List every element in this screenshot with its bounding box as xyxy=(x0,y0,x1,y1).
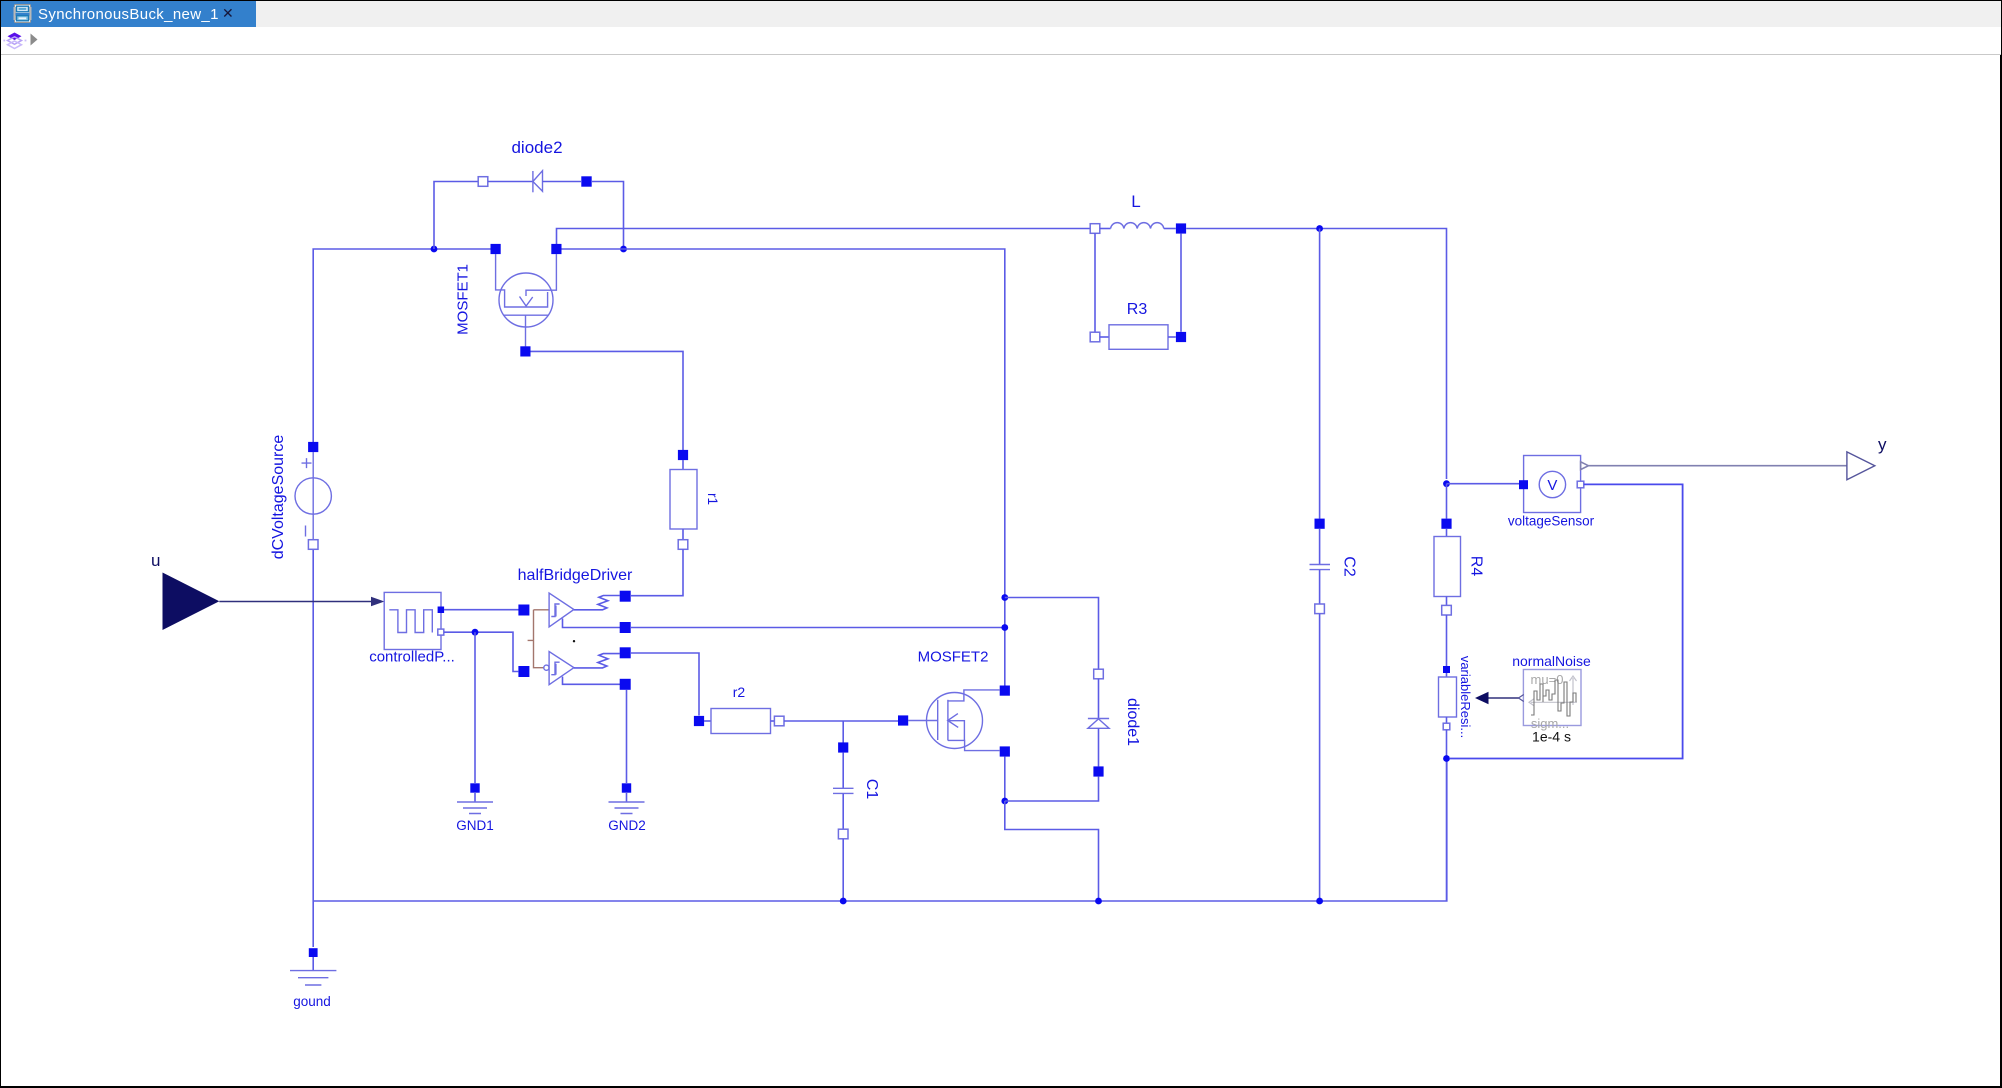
wire halfBridgeDriver out3 to r2 xyxy=(631,653,699,716)
svg-text:GND1: GND1 xyxy=(456,818,494,833)
run arrow icon xyxy=(29,33,41,47)
wire MOSFET1 source to r1 xyxy=(531,351,684,450)
svg-text:MOSFET2: MOSFET2 xyxy=(918,649,989,666)
output y xyxy=(1847,435,1887,480)
MOSFET2 xyxy=(898,649,1010,757)
wire r1 to halfBridgeDriver fire output xyxy=(631,549,683,595)
wire C2 to bus xyxy=(1319,614,1321,901)
svg-text:GND2: GND2 xyxy=(608,818,646,833)
MOSFET1 xyxy=(455,244,562,357)
node junction at (1004.8,801) xyxy=(1001,798,1008,805)
wire controlledPWM notFire to halfBridgeDriver xyxy=(444,632,518,671)
wire halfBridgeDriver out4 down to GND2 xyxy=(626,690,628,783)
wire node to diode1 top xyxy=(1005,598,1099,670)
svg-text:diode2: diode2 xyxy=(511,138,562,157)
wire junction down to GND1 xyxy=(474,632,476,783)
svg-text:V: V xyxy=(1547,477,1557,494)
svg-text:voltageSensor: voltageSensor xyxy=(1508,514,1595,529)
wire diode1 bottom to node xyxy=(1005,777,1099,801)
wire branch down to C1 xyxy=(842,721,844,743)
wire node to voltageSensor xyxy=(1447,483,1520,485)
svg-text:1e-4 s: 1e-4 s xyxy=(1532,729,1571,745)
wire MOSFET1 drain node to L bus (upper) xyxy=(557,229,1091,245)
capacitor C1 xyxy=(833,742,880,838)
node junction at (1098.5,901) xyxy=(1095,898,1102,905)
svg-text:r2: r2 xyxy=(733,684,746,700)
svg-text:MOSFET1: MOSFET1 xyxy=(455,264,472,335)
node junction at (475,632) xyxy=(472,629,479,636)
resistor R3 xyxy=(1090,301,1186,349)
svg-text:halfBridgeDriver: halfBridgeDriver xyxy=(518,567,633,584)
node junction at (623.5,249) xyxy=(620,246,627,253)
controlledPWM xyxy=(369,592,455,665)
wire C2 branch down xyxy=(1319,229,1321,519)
wire dCVoltageSource.p to top-left corner node xyxy=(313,249,495,442)
svg-text:normalNoise: normalNoise xyxy=(1512,653,1591,669)
node junction at (1319.6,228.5) xyxy=(1316,225,1323,232)
svg-text:y: y xyxy=(1878,435,1887,454)
resistor R4 xyxy=(1434,519,1485,615)
wire voltageSensor measure loop to variableResistor node xyxy=(1450,484,1683,758)
diode2 xyxy=(478,138,592,192)
node junction at (434,249) xyxy=(431,246,438,253)
wire controlledPWM fire to halfBridgeDriver xyxy=(444,609,519,611)
svg-text:R4: R4 xyxy=(1468,556,1485,577)
wire left vertical: dCVoltageSource.n down to ground xyxy=(312,550,314,947)
svg-text:L: L xyxy=(1131,192,1140,211)
wire MOSFET1 right pin along y=249 to MOSFET2 drain xyxy=(562,249,1005,686)
wire normalNoise output arrow to variableResistor xyxy=(1488,697,1519,699)
dCVoltageSource xyxy=(270,435,331,560)
ground gound xyxy=(290,948,336,1009)
wire L to right corner and down xyxy=(1186,229,1446,480)
halfBridgeDriver xyxy=(518,567,633,690)
wire C1 to bus xyxy=(842,839,844,901)
node junction at (1446.5,758.5) xyxy=(1443,755,1450,762)
normalNoise xyxy=(1512,653,1591,745)
svg-text:dCVoltageSource: dCVoltageSource xyxy=(270,435,287,560)
wire u signal to controlledPWM with arrowhead xyxy=(219,601,372,603)
node junction at (1446.5,483.7) xyxy=(1443,480,1450,487)
svg-text:gound: gound xyxy=(293,994,331,1009)
wire r2 to MOSFET2 gate xyxy=(784,720,898,722)
tab model icon xyxy=(13,4,33,24)
ground GND2 xyxy=(608,783,646,833)
wire variableResistor down to feedback node xyxy=(1446,730,1448,901)
node junction at (1004.8,597.5) xyxy=(1001,594,1008,601)
node junction at (1319.6,901) xyxy=(1316,898,1323,905)
svg-text:controlledP...: controlledP... xyxy=(369,649,455,666)
layers icon xyxy=(3,32,29,50)
wire voltageSensor output to y xyxy=(1588,465,1847,467)
wire R3 right up to L right xyxy=(1180,234,1182,332)
node junction at (843.2,901) xyxy=(840,898,847,905)
resistor r2 xyxy=(694,684,784,734)
wire bottom bus xyxy=(313,759,1447,902)
wire L left down to R3 xyxy=(1094,233,1096,332)
input u xyxy=(151,551,219,630)
svg-text:C2: C2 xyxy=(1341,556,1358,577)
wire halfBridgeDriver out2 to MOSFET node xyxy=(631,627,1005,629)
svg-text:R3: R3 xyxy=(1127,301,1148,318)
wire R4 to variableResistor xyxy=(1446,615,1448,666)
voltageSensor xyxy=(1508,456,1595,529)
wire node down to R4 xyxy=(1446,484,1448,519)
resistor r1 xyxy=(670,450,720,549)
inductor L xyxy=(1090,192,1186,234)
wire node down to bus xyxy=(1005,801,1099,901)
svg-text:variableResi...: variableResi... xyxy=(1458,656,1473,738)
svg-text:r1: r1 xyxy=(705,493,720,505)
ground GND1 xyxy=(456,783,494,833)
capacitor C2 xyxy=(1310,519,1358,614)
wire diode2 left branch xyxy=(434,182,478,250)
wire MOSFET2 source down to node xyxy=(1004,757,1006,801)
svg-text:diode1: diode1 xyxy=(1124,698,1141,746)
wire diode2 right branch down to node xyxy=(592,182,624,250)
diode1 xyxy=(1088,669,1141,776)
variableResistor xyxy=(1439,656,1474,738)
svg-text:C1: C1 xyxy=(863,779,880,800)
node junction at (1004.8,627.5) xyxy=(1001,624,1008,631)
svg-text:u: u xyxy=(151,551,160,570)
